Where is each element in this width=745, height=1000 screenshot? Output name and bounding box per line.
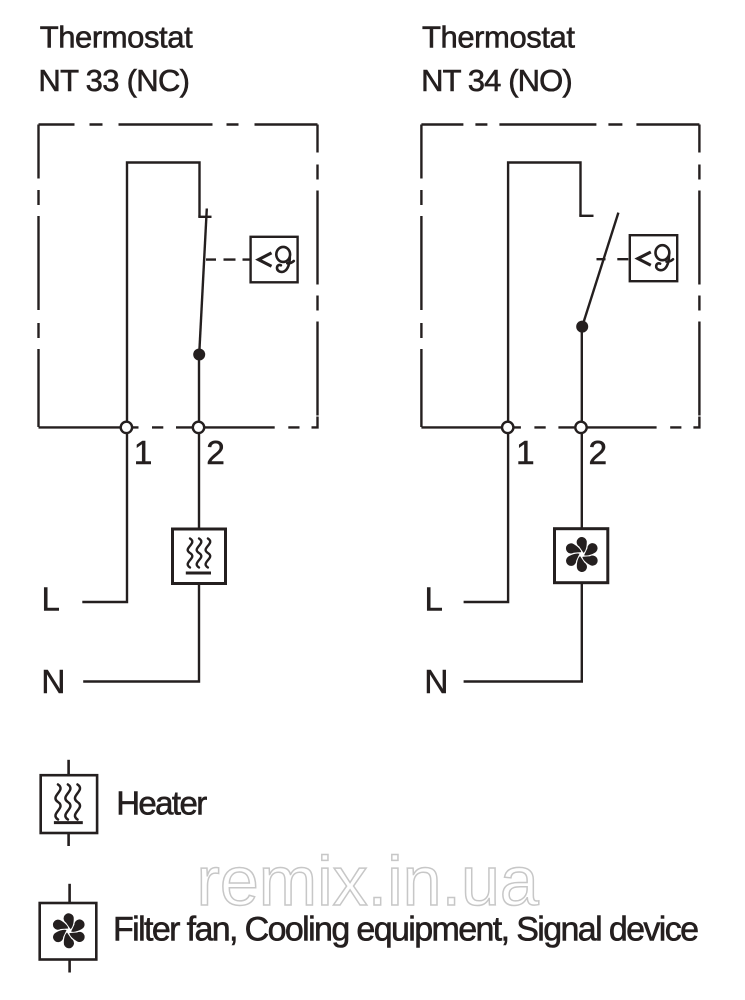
less-than wedge left [259, 253, 272, 266]
dashed enclosure left [420, 125, 422, 428]
wire L feed to terminal 1 and inner loop to fixed contact [464, 163, 581, 603]
terminal 2 [575, 422, 586, 433]
svg-text:2: 2 [589, 435, 608, 472]
terminal 1 [502, 422, 513, 433]
dashed enclosure top [421, 123, 699, 125]
svg-text:1: 1 [516, 435, 535, 472]
NO fixed contact tick [579, 215, 593, 217]
heater symbol (diagram) [186, 539, 211, 574]
dashed link to thermostat element [206, 258, 251, 260]
terminal 2 [193, 422, 204, 433]
heater box E1 [173, 529, 226, 584]
fan symbol (legend) [51, 913, 86, 948]
switch blade S2 [582, 213, 618, 327]
svg-text:Heater: Heater [116, 785, 207, 822]
heater symbol (legend) [54, 785, 83, 823]
wire: moving contact to fan [581, 327, 583, 529]
switch blade S1 [199, 209, 207, 355]
svg-text:1: 1 [134, 435, 153, 472]
theta glyph left [276, 247, 293, 272]
moving contact dot left [193, 349, 205, 361]
dashed enclosure right [698, 125, 700, 416]
heater legend stub top [67, 760, 70, 775]
dashed enclosure left [37, 125, 39, 428]
fan box M1 [555, 529, 608, 583]
svg-text:L: L [42, 581, 60, 618]
enclosure bottom segments [421, 426, 681, 428]
NC fixed contact tick [198, 216, 211, 218]
svg-text:N: N [424, 664, 448, 701]
dashed link to thermostat element [597, 258, 629, 260]
wire: moving contact to heater [198, 355, 200, 530]
dashed enclosure right [316, 125, 318, 416]
fan symbol (diagram) [564, 537, 599, 572]
svg-text:2: 2 [206, 435, 225, 472]
svg-text:remix.in.ua: remix.in.ua [197, 842, 539, 920]
svg-text:L: L [425, 581, 443, 618]
wire: fan to N [464, 583, 582, 682]
svg-text:NT 34 (NO): NT 34 (NO) [421, 63, 573, 98]
dashed enclosure top [39, 123, 318, 125]
fan legend stub top [68, 884, 71, 903]
theta glyph right [656, 245, 674, 270]
heater legend box [41, 775, 97, 833]
thermostat sensor box U2 [630, 235, 677, 281]
enclosure bottom segments [39, 426, 300, 428]
heater legend stub bottom [67, 833, 70, 846]
enclosure bottom-right corner [693, 417, 699, 428]
svg-text:NT 33 (NC): NT 33 (NC) [38, 63, 190, 98]
less-than wedge right [638, 252, 651, 265]
wire L feed to terminal 1 and inner loop to fixed contact [82, 163, 199, 603]
fan legend box [40, 903, 97, 960]
svg-text:Thermostat: Thermostat [422, 20, 575, 55]
enclosure bottom-right corner [312, 417, 318, 428]
wire: heater to N [83, 584, 199, 682]
moving contact dot right [576, 321, 588, 333]
thermostat sensor box U1 [251, 237, 298, 282]
terminal 1 [121, 422, 132, 433]
svg-text:N: N [41, 664, 65, 701]
svg-text:Thermostat: Thermostat [40, 20, 193, 55]
fan legend stub bottom [68, 960, 71, 973]
